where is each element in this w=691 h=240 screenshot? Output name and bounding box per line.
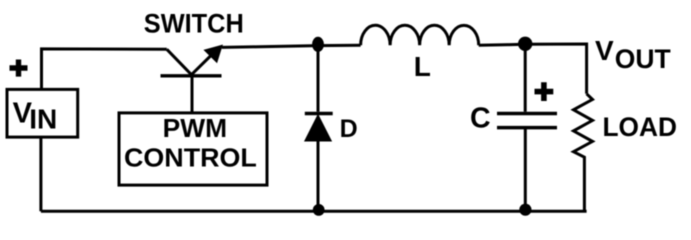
PWM control block box xyxy=(119,113,267,185)
polarity + at input xyxy=(10,60,28,77)
junction dot node SW top xyxy=(312,37,324,52)
wire base to PWM control xyxy=(191,76,194,112)
wire diode to bottom rail xyxy=(317,140,320,211)
transistor SWITCH collector diagonal xyxy=(167,49,192,74)
wire diode anode drop xyxy=(317,45,320,112)
svg-text:IN: IN xyxy=(29,103,57,134)
diode D triangle xyxy=(305,115,331,141)
svg-text:OUT: OUT xyxy=(615,44,671,74)
transistor SWITCH base bar xyxy=(161,74,222,77)
junction dot node VOUT top xyxy=(518,37,532,51)
wire inductor to VOUT corner xyxy=(479,44,587,94)
svg-text:D: D xyxy=(340,115,358,143)
wire capacitor bottom xyxy=(524,129,527,210)
svg-text:PWM: PWM xyxy=(163,113,227,143)
wire bottom rail xyxy=(41,210,587,213)
wire input top: VIN top to switch xyxy=(42,49,167,90)
junction dot capacitor bottom xyxy=(519,204,531,216)
svg-text:LOAD: LOAD xyxy=(603,112,678,142)
capacitor C bottom plate xyxy=(497,126,557,130)
junction dot diode bottom xyxy=(313,204,325,216)
polarity + at capacitor xyxy=(535,82,554,101)
svg-text:V: V xyxy=(595,35,614,66)
resistor LOAD zigzag xyxy=(574,94,593,212)
svg-text:L: L xyxy=(414,51,431,82)
wire capacitor top xyxy=(524,44,527,112)
svg-text:CONTROL: CONTROL xyxy=(124,142,257,172)
svg-text:SWITCH: SWITCH xyxy=(144,8,244,38)
inductor L (4 arcs) xyxy=(361,25,479,45)
wire switch to inductor (node SW) xyxy=(222,45,361,47)
voltage source VIN box xyxy=(7,89,78,137)
transistor SWITCH emitter arrowhead xyxy=(205,46,222,62)
svg-text:C: C xyxy=(470,103,491,135)
capacitor C top plate xyxy=(497,112,557,116)
diode D cathode bar xyxy=(305,112,333,115)
transistor SWITCH emitter shaft xyxy=(191,53,213,75)
wire VIN bottom to rail xyxy=(39,138,42,212)
